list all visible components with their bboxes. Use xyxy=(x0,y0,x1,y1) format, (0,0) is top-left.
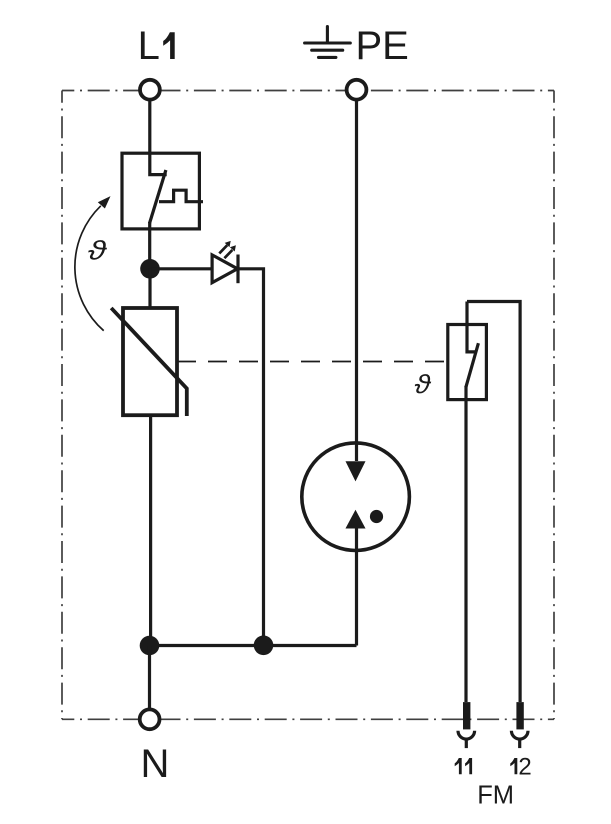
svg-text:FM: FM xyxy=(477,782,514,810)
varistor (MOV) xyxy=(111,308,187,416)
enclosure boundary (dash-dot device outline) xyxy=(62,91,554,720)
label theta left xyxy=(88,240,107,260)
terminal fork 12 xyxy=(511,731,528,739)
svg-text:L: L xyxy=(138,24,160,68)
label 11 xyxy=(455,758,462,774)
spark gap trigger dot xyxy=(370,510,383,523)
terminal block 11 xyxy=(463,702,470,729)
terminal fork 11 xyxy=(458,731,475,739)
terminal N xyxy=(140,709,160,729)
terminal PE xyxy=(347,80,367,100)
LED light arrows xyxy=(219,245,232,258)
spark gap bottom electrode arrow xyxy=(346,511,364,528)
wire down to N terminal xyxy=(148,646,151,709)
terminal block 12 xyxy=(516,702,523,729)
junction dot bottom left xyxy=(140,636,160,656)
svg-text:2: 2 xyxy=(518,753,531,780)
wire junction to LED anode xyxy=(150,267,212,270)
svg-text:PE: PE xyxy=(356,24,409,68)
wire varistor down to bottom node xyxy=(149,415,152,645)
arc arrow (thermal trip indicator) xyxy=(75,206,104,331)
label 12 xyxy=(510,758,517,774)
ground symbol (earth at PE) xyxy=(305,27,351,58)
svg-text:N: N xyxy=(141,742,170,786)
thermal disconnector (switch in box) xyxy=(122,153,203,268)
spark gap top electrode arrow xyxy=(346,462,364,481)
LED indicator xyxy=(212,255,238,284)
bottom wire node N to spark gap xyxy=(150,644,357,647)
label theta right xyxy=(415,374,431,393)
wire LED cathode to return xyxy=(238,269,264,646)
junction dot LED return xyxy=(254,636,274,656)
spark gap (gas discharge tube) xyxy=(302,443,410,551)
wire L1 down to disconnector xyxy=(148,101,151,154)
terminal L1 xyxy=(140,80,160,100)
thermal signal contact (right switch box) xyxy=(448,302,520,703)
wire spark gap down to bottom wire xyxy=(355,528,358,646)
wire junction down to varistor xyxy=(148,269,151,308)
wire PE down to spark gap xyxy=(355,101,358,461)
dashed mechanical link varistor to thermal contact xyxy=(177,361,448,363)
node junction (LED tap) xyxy=(140,259,160,279)
